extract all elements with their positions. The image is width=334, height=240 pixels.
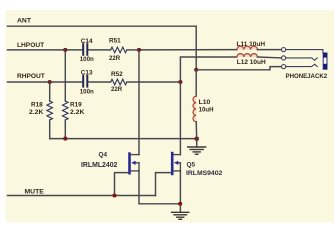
wire L12 to jack ring pin <box>257 56 281 59</box>
inductor L12 <box>237 54 257 57</box>
junction dot node B (RHPOUT / L12 / Q5 drain) <box>178 80 182 84</box>
wire Q5 source down to ground node <box>179 171 181 212</box>
junction dot node A (R51 / Q4 drain) <box>137 48 141 52</box>
resistor R52 <box>111 79 127 85</box>
jack ring pin circle <box>282 56 286 60</box>
svg-text:L11 10uH: L11 10uH <box>237 41 266 48</box>
Q5 source stub <box>174 170 181 172</box>
jack plug body <box>323 53 327 69</box>
wire ground rail <box>50 138 197 140</box>
svg-text:ANT: ANT <box>17 17 32 24</box>
wire RHPOUT to C13 <box>8 81 82 83</box>
svg-text:L12 10uH: L12 10uH <box>237 59 266 66</box>
Q4 body stub with arrow <box>135 162 140 164</box>
svg-text:IRLMS9402: IRLMS9402 <box>186 170 222 177</box>
jack sleeve pin circle <box>282 65 286 69</box>
jack sleeve switch contact <box>286 64 317 66</box>
wire ANT horizontal <box>8 25 197 27</box>
svg-text:C14: C14 <box>81 38 93 45</box>
Q4 source stub <box>131 170 139 172</box>
svg-text:10uH: 10uH <box>199 106 214 113</box>
svg-text:PHONEJACK2: PHONEJACK2 <box>286 73 328 80</box>
svg-text:22R: 22R <box>109 55 121 62</box>
junction dot R18 top on RHPOUT <box>48 80 52 84</box>
jack ring switch contact <box>286 58 317 60</box>
wire MUTE <box>8 195 156 197</box>
inductor L11 <box>237 46 257 49</box>
wire R51 to node A <box>127 49 139 51</box>
inductor L10 <box>193 70 197 139</box>
svg-text:C13: C13 <box>81 69 93 76</box>
svg-text:LHPOUT: LHPOUT <box>17 42 44 49</box>
svg-text:100n: 100n <box>80 89 94 96</box>
ground symbol under L10 rail <box>188 139 206 155</box>
junction dot R19 top on LHPOUT <box>63 48 67 52</box>
wire sleeve branch to jack <box>196 67 281 70</box>
wire Q5 drain vertical from node B <box>179 82 181 155</box>
Q5 channel bar <box>171 152 174 175</box>
capacitor C13 <box>83 76 87 87</box>
svg-text:100n: 100n <box>80 56 94 63</box>
Q4 body-source link <box>138 163 140 171</box>
svg-text:IRLML2402: IRLML2402 <box>81 162 118 169</box>
junction dot R19 bottom on rail <box>63 137 67 141</box>
svg-text:R18: R18 <box>31 102 43 109</box>
svg-text:MUTE: MUTE <box>25 189 45 196</box>
wire ANT vertical drop to sleeve node <box>195 26 197 70</box>
Q4 drain stub <box>131 154 139 156</box>
resistor R18 <box>47 82 53 139</box>
svg-text:RHPOUT: RHPOUT <box>17 73 45 80</box>
svg-text:R19: R19 <box>70 102 82 109</box>
svg-text:22R: 22R <box>111 86 123 93</box>
transistor Q4 (IRLML2402) <box>115 50 181 204</box>
Q5 body-source link <box>179 163 181 171</box>
Q4 channel bar <box>128 152 131 174</box>
Q5 body stub with arrow <box>177 162 180 164</box>
wire Q4 gate lead <box>115 173 129 196</box>
svg-text:R52: R52 <box>111 71 123 78</box>
connector PHONEJACK2 <box>282 48 328 70</box>
wire node B up and right to L12 <box>180 57 236 82</box>
wire C13 to R52 <box>89 81 111 83</box>
Q5 drain stub <box>174 154 181 156</box>
transistor Q5 (IRLMS402) <box>156 82 181 212</box>
wire C14 to R51 <box>89 49 111 51</box>
jack tip pin circle <box>282 48 286 52</box>
resistor R19 <box>63 50 69 139</box>
wire L11 to jack tip pin <box>257 49 281 51</box>
capacitor C14 <box>83 44 87 55</box>
junction dot MUTE / Q4 gate <box>112 193 116 197</box>
jack tip contact line <box>286 50 323 53</box>
wire Q4 source down and right to ground node <box>139 171 180 204</box>
resistor R51 <box>111 47 127 53</box>
wire Q4 drain vertical from node A <box>138 50 140 155</box>
wire node A to L11 <box>139 49 237 51</box>
junction dot Q4+Q5 source / ground <box>178 202 182 206</box>
svg-text:L10: L10 <box>199 99 211 106</box>
junction dot ANT / jack sleeve branch <box>194 68 198 72</box>
svg-text:2.2K: 2.2K <box>29 109 43 116</box>
ground symbol under Q4/Q5 sources <box>172 212 189 219</box>
wire Q5 gate lead <box>156 173 171 196</box>
svg-text:R51: R51 <box>109 38 121 45</box>
svg-text:Q4: Q4 <box>99 151 108 158</box>
wire R52 to node B <box>127 81 180 83</box>
wire LHPOUT to C14 <box>8 49 82 51</box>
svg-text:Q5: Q5 <box>187 161 196 168</box>
svg-text:2.2K: 2.2K <box>70 109 84 116</box>
junction dot rail / L10 / ground <box>194 137 199 142</box>
